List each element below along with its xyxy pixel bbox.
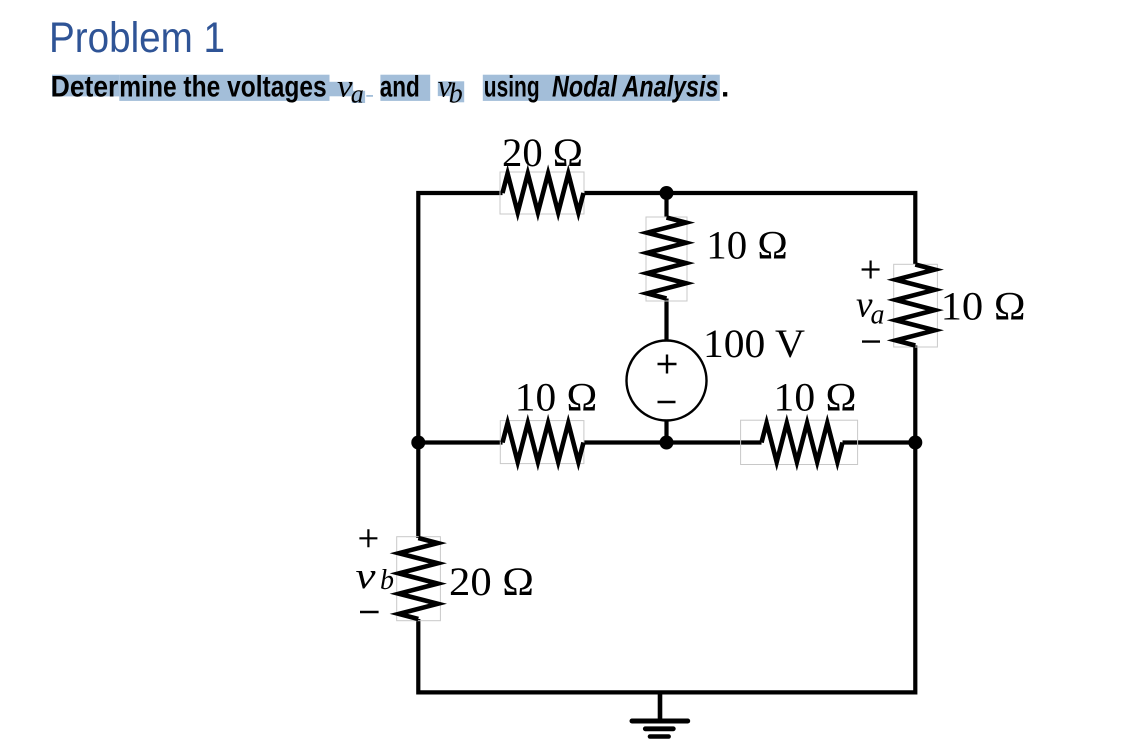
svg-text:v: v bbox=[356, 556, 377, 597]
node junction dot middle-left bbox=[411, 436, 425, 450]
resistor 20ohm top: zigzag bbox=[503, 174, 584, 213]
resistor 10ohm right (v_a): zigzag bbox=[896, 265, 935, 346]
resistor 20ohm left (v_b): zigzag bbox=[399, 538, 438, 619]
label v_b bbox=[356, 556, 395, 597]
label minus for v_b bbox=[360, 611, 379, 613]
label v_a bbox=[856, 285, 885, 331]
svg-text:Nodal Analysis: Nodal Analysis bbox=[552, 70, 719, 103]
label plus for v_a bbox=[862, 261, 880, 279]
resistor 20ohm left (v_b): selection box bbox=[397, 537, 441, 621]
wire: bottom loop (left below vb, bottom wire, right wire up to va resistor) bbox=[418, 346, 915, 693]
wire: middle horizontal center segment bbox=[584, 440, 762, 444]
voltage source minus sign bbox=[658, 401, 676, 403]
node junction dot top (middle branch / top wire) bbox=[660, 186, 674, 200]
resistor 10ohm middle branch: zigzag bbox=[647, 218, 686, 299]
svg-text:mine the voltages: mine the voltages bbox=[119, 70, 326, 103]
wire: middle branch resistor to source bbox=[664, 299, 668, 341]
node junction dot middle-center bbox=[660, 436, 674, 450]
resistor 10ohm middle branch: selection box bbox=[646, 217, 687, 301]
voltage source plus sign bbox=[658, 355, 677, 374]
ground stub wire bbox=[658, 692, 663, 721]
wire: middle branch from top node to 10ohm resistor bbox=[664, 193, 668, 218]
resistor 10ohm middle-right: zigzag bbox=[762, 423, 843, 462]
svg-text:100 V: 100 V bbox=[703, 321, 805, 366]
resistor 10ohm middle-left: selection box bbox=[500, 421, 584, 464]
wire: top-left corner (top wire left part + left wire down to vb resistor) bbox=[418, 193, 502, 538]
svg-text:b: b bbox=[449, 78, 463, 109]
resistor 10ohm middle-right: selection box bbox=[741, 420, 858, 464]
resistor 10ohm middle-left: zigzag bbox=[503, 423, 584, 462]
highlight dash after v_a bbox=[366, 95, 373, 97]
node junction dot middle-right bbox=[908, 436, 922, 450]
highlight rect behind "and" bbox=[380, 75, 430, 101]
svg-text:a: a bbox=[351, 79, 364, 108]
body math v_b bbox=[438, 67, 463, 109]
highlight rect behind "mine the voltages" bbox=[119, 75, 329, 101]
svg-text:20 Ω: 20 Ω bbox=[502, 130, 583, 175]
svg-text:a: a bbox=[871, 300, 885, 331]
svg-text:10 Ω: 10 Ω bbox=[774, 375, 857, 420]
highlight rect behind subscript b bbox=[450, 81, 465, 102]
highlight rect behind "using Nodal Analysis" bbox=[483, 75, 720, 101]
wire: middle horizontal left segment bbox=[418, 440, 502, 444]
resistor 20ohm top: selection box bbox=[500, 172, 584, 214]
svg-text:10 Ω: 10 Ω bbox=[515, 375, 598, 420]
voltage source 100V: circle bbox=[627, 341, 707, 421]
svg-text:20 Ω: 20 Ω bbox=[449, 559, 534, 604]
svg-text:.: . bbox=[721, 70, 729, 103]
title: Problem 1 bbox=[49, 14, 225, 62]
wire: top-right corner (right wire above va resistor + top wire right part) bbox=[584, 193, 916, 265]
svg-text:10 Ω: 10 Ω bbox=[706, 223, 788, 268]
svg-text:using: using bbox=[484, 70, 540, 103]
wire: source to middle wire bbox=[664, 421, 668, 443]
svg-text:Problem 1: Problem 1 bbox=[49, 14, 225, 62]
label minus for v_a bbox=[862, 340, 880, 342]
highlight rect behind "Deter" bbox=[52, 75, 119, 97]
highlight band behind math v (v_a) bbox=[330, 82, 354, 97]
highlight band behind math v (v_b) bbox=[438, 81, 450, 96]
svg-text:Deter: Deter bbox=[51, 70, 119, 103]
svg-text:and: and bbox=[380, 70, 420, 103]
label plus for v_b bbox=[359, 529, 377, 547]
ground symbol bars bbox=[632, 721, 688, 737]
body math v_a bbox=[337, 67, 364, 108]
wire: middle horizontal right segment bbox=[843, 440, 916, 444]
highlight rect behind subscript a bbox=[352, 91, 365, 103]
svg-text:b: b bbox=[380, 565, 394, 596]
resistor 10ohm right (v_a): selection box bbox=[894, 264, 938, 347]
svg-text:10 Ω: 10 Ω bbox=[941, 284, 1026, 329]
